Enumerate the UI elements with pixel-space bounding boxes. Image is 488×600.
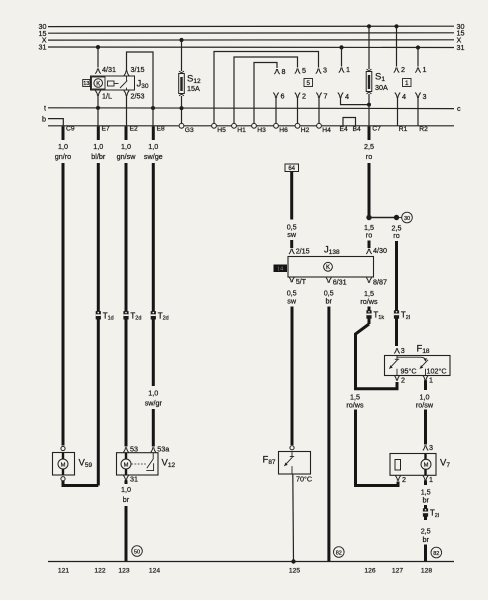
wire pin2 to rail H2 [297, 98, 299, 126]
svg-text:gn/sw: gn/sw [117, 152, 137, 161]
svg-text:J138: J138 [324, 245, 340, 257]
svg-text:E4: E4 [340, 126, 348, 133]
connector T2d on sw/ge [151, 311, 156, 319]
F18 102C contact [420, 360, 428, 376]
relay contact J30 [120, 76, 127, 90]
wire t-c line [48, 107, 454, 110]
svg-text:1: 1 [346, 65, 350, 74]
connector pin 6 bottom [273, 93, 278, 98]
connector pin 8/87 [366, 278, 371, 283]
svg-text:V7: V7 [440, 458, 450, 470]
svg-text:ro/ws: ro/ws [346, 401, 364, 410]
svg-text:b: b [42, 114, 46, 123]
connector pin 1 F18 [423, 375, 428, 380]
svg-text:ro/ws: ro/ws [360, 297, 378, 306]
svg-text:ro: ro [393, 231, 399, 240]
wire br to ground rail right [424, 545, 427, 562]
svg-text:82: 82 [336, 550, 342, 556]
svg-text:br: br [422, 535, 429, 544]
svg-text:6/31: 6/31 [333, 278, 347, 287]
svg-text:5: 5 [302, 66, 306, 75]
node box 64 [285, 164, 299, 172]
wire J30 1/L to rail E7 [97, 96, 99, 126]
terminal circle F87 top [290, 446, 294, 450]
terminal circle V59 bottom [61, 477, 65, 481]
ground ref 82 left [334, 547, 345, 558]
svg-text:T2l: T2l [401, 311, 410, 321]
svg-text:2,5: 2,5 [364, 142, 374, 151]
connector pin 3 bottom right [415, 93, 420, 98]
relay coil J30 [108, 81, 115, 86]
junction dot t-line x181.5 [180, 106, 184, 110]
wire sw from 64 to J138 2/15 [290, 172, 293, 220]
svg-text:123: 123 [118, 568, 129, 575]
svg-text:ro/sw: ro/sw [416, 401, 434, 410]
svg-text:sw: sw [287, 230, 297, 239]
ground ref 82 right [431, 547, 442, 558]
terminal H4 [317, 123, 322, 128]
svg-text:R1: R1 [399, 126, 408, 133]
series resistor in V7 [395, 460, 401, 471]
continuation ref circle 30 [402, 212, 413, 223]
svg-text:R2: R2 [419, 126, 428, 133]
svg-text:3: 3 [323, 66, 327, 75]
svg-text:31: 31 [130, 475, 138, 484]
connector pin 3 V7 [423, 445, 428, 450]
bus X [48, 39, 454, 41]
svg-text:64: 64 [288, 166, 295, 172]
svg-text:E8: E8 [157, 126, 165, 133]
svg-text:H5: H5 [217, 127, 226, 134]
svg-text:1: 1 [405, 80, 409, 87]
fan motor V7 box [390, 454, 436, 476]
svg-text:T2l: T2l [430, 509, 439, 519]
svg-text:1,0: 1,0 [121, 485, 131, 494]
svg-text:8/87: 8/87 [373, 278, 387, 287]
wire ro C7 to junction [368, 163, 371, 218]
svg-text:13: 13 [83, 81, 89, 87]
wire busX to S12 [181, 40, 183, 71]
svg-text:T2d: T2d [158, 311, 169, 321]
junction dot bus30 x369 [367, 24, 371, 28]
svg-text:2/53: 2/53 [131, 91, 145, 100]
svg-text:G3: G3 [185, 127, 194, 134]
wire br V12 to ground rail [125, 506, 128, 561]
svg-text:7: 7 [324, 92, 328, 101]
motor V12 symbol M [121, 459, 131, 469]
connector pin 5/T [289, 277, 294, 282]
svg-text:F18: F18 [417, 344, 430, 356]
svg-text:126: 126 [364, 568, 375, 575]
svg-text:H4: H4 [322, 127, 331, 134]
connector pin 1 V7 [423, 476, 428, 481]
wire sw/gr E8 lower run to V12 53a [152, 409, 155, 447]
connector T1k [366, 310, 371, 318]
terminal H2 [295, 123, 300, 128]
svg-text:H3: H3 [257, 127, 266, 134]
wire ro/ws diagonal jog [356, 324, 398, 389]
svg-text:4/31: 4/31 [102, 65, 116, 74]
svg-text:F87: F87 [263, 455, 276, 467]
wire J30 3/15 riser to E8 [127, 52, 154, 126]
wire F87 to ground rail [292, 474, 295, 562]
svg-text:T1d: T1d [103, 311, 114, 321]
thermo switch F87 box [279, 452, 311, 475]
connector id box 5 [304, 79, 313, 87]
svg-text:C9: C9 [66, 126, 75, 133]
svg-text:4: 4 [402, 92, 406, 101]
svg-text:125: 125 [289, 568, 300, 575]
svg-text:M: M [61, 462, 66, 468]
thermo switch F18 box [385, 356, 451, 376]
svg-text:2/15: 2/15 [296, 247, 310, 256]
svg-text:127: 127 [392, 568, 403, 575]
junction dot branch [394, 215, 399, 220]
svg-text:82: 82 [433, 551, 439, 557]
wire E2 stub [125, 126, 128, 140]
bus labels right [457, 22, 465, 52]
terminal H6 [274, 123, 279, 128]
junction dot t-line x98 [96, 106, 100, 110]
junction dot bus31 x98 [96, 45, 100, 49]
wire bus30 to pin 2 [396, 26, 398, 66]
svg-text:M: M [424, 463, 429, 469]
svg-text:1: 1 [429, 375, 433, 384]
wire V12 31 stub [125, 480, 128, 484]
svg-text:122: 122 [94, 568, 105, 575]
connector T2d on gn/sw [123, 311, 128, 319]
svg-text:bl/br: bl/br [91, 152, 106, 161]
svg-text:1: 1 [423, 65, 427, 74]
wire bus31 to pin 1 left [341, 47, 343, 66]
junction dot t-line x153 [151, 106, 155, 110]
connector pin 2 bottom [295, 93, 300, 98]
connector pin 2/15 [289, 249, 294, 254]
wire sw/ge E8 upper run [152, 163, 155, 386]
motor V7 symbol M [421, 459, 431, 469]
wire sw stub to 2/15 [290, 240, 293, 248]
svg-text:E2: E2 [130, 126, 138, 133]
junction dot pin4/S1 [367, 103, 371, 107]
junction dot F87 ground [291, 559, 295, 563]
svg-text:E7: E7 [102, 126, 110, 133]
svg-text:S1: S1 [375, 72, 385, 84]
svg-text:30A: 30A [375, 83, 388, 92]
jumper loop E4 to B4 [343, 118, 356, 126]
connector pin 2 (right) [394, 68, 399, 73]
wire pin6 to rail H6 [275, 98, 277, 126]
junction dot bus31 x341.5 [339, 45, 343, 49]
fuse S1 30A [366, 69, 372, 94]
connector T1d [96, 311, 101, 319]
svg-text:C7: C7 [372, 126, 381, 133]
connector id box 1 [403, 79, 412, 87]
wire ro/ws 8/87 to T1k [368, 307, 371, 325]
wire C7 stub [368, 126, 371, 140]
svg-text:ro: ro [366, 152, 372, 161]
svg-text:br: br [422, 496, 429, 505]
wire pin7 to rail H4 [318, 98, 320, 126]
wire ro/ws to V7 2 [356, 410, 399, 486]
wire pin4 to S1 column junction [341, 98, 370, 105]
svg-text:15A: 15A [187, 84, 200, 93]
op coil circle K of J30 [94, 79, 103, 88]
terminal H3 [252, 123, 257, 128]
wire ro stub to 4/30 [368, 241, 371, 249]
svg-text:128: 128 [421, 568, 432, 575]
wire H1 riser to pin 5 [234, 57, 298, 126]
wire S12 to rail G3 [181, 96, 183, 126]
svg-text:3: 3 [423, 92, 427, 101]
connector pin 1 (left) [339, 68, 344, 73]
svg-text:sw/ge: sw/ge [144, 152, 163, 161]
svg-text:B4: B4 [353, 126, 361, 133]
svg-text:4: 4 [345, 92, 349, 101]
svg-text:H2: H2 [301, 127, 310, 134]
limit switch V12 [146, 453, 153, 471]
svg-text:c: c [457, 104, 461, 113]
bus labels left [39, 22, 47, 51]
connector pin 53a [151, 447, 156, 452]
wire J30 2/53 to rail E2 [126, 96, 128, 126]
connector pin 3 F18 [394, 348, 399, 353]
wire ro/sw F18 to V7 [424, 410, 427, 445]
wire bus30 to fuse S1 [368, 26, 370, 69]
connector pin 3 top [316, 69, 321, 74]
wire bus31 to pin 1 right [417, 48, 419, 67]
svg-text:J30: J30 [137, 79, 149, 91]
svg-text:1: 1 [429, 475, 433, 484]
svg-text:8: 8 [282, 67, 286, 76]
connector pin 2 F18 [394, 375, 399, 380]
wire E7 stub [97, 126, 100, 140]
junction dot busX x181.5 [179, 38, 183, 42]
svg-text:31: 31 [39, 43, 47, 52]
svg-text:53: 53 [130, 444, 138, 453]
bus 31 [48, 46, 454, 49]
wire pin3 to rail R2 [417, 98, 419, 126]
connector pin 1/L [95, 91, 100, 96]
connector pin 1 (far right) [415, 68, 420, 73]
svg-text:53a: 53a [157, 444, 169, 453]
F87 contact [284, 452, 294, 475]
bus 30 [48, 25, 454, 27]
svg-text:1,0: 1,0 [58, 142, 68, 151]
wire E8 stub [152, 126, 155, 140]
svg-text:30: 30 [404, 216, 410, 222]
svg-text:1,0: 1,0 [148, 389, 158, 398]
svg-text:br: br [123, 495, 130, 504]
wire gn/sw E2 to V12 53 [125, 163, 128, 447]
junction dot bus31 x418 [416, 45, 420, 49]
ground ref 50 [132, 546, 143, 557]
connector T2l lower [423, 508, 428, 516]
relay J30 box [91, 76, 135, 90]
svg-text:121: 121 [58, 568, 69, 575]
svg-text:124: 124 [149, 568, 160, 575]
wire H5 riser to pin 3 [214, 52, 319, 126]
svg-text:50: 50 [134, 549, 140, 555]
svg-text:V12: V12 [162, 458, 176, 470]
wire sw J138 to F87 [291, 307, 294, 446]
svg-text:1,0: 1,0 [148, 142, 158, 151]
connector pin 3/15 [124, 71, 129, 76]
connector pin 4 bottom [338, 93, 343, 98]
circle K of J138 [324, 262, 333, 271]
connector pin 4/30 [366, 249, 371, 254]
wire C9 stub [62, 126, 65, 140]
motor V59 symbol M [58, 459, 68, 469]
wire bl/br E7 to V59 return [97, 163, 100, 486]
svg-text:1,0: 1,0 [93, 142, 103, 151]
svg-text:gn/ro: gn/ro [55, 152, 71, 161]
svg-text:6: 6 [281, 92, 285, 101]
connector pin 2/53 [124, 91, 129, 96]
svg-text:3/15: 3/15 [131, 65, 145, 74]
svg-text:1/L: 1/L [102, 91, 112, 100]
position tag 14 [274, 265, 288, 273]
svg-text:K: K [326, 265, 330, 271]
terminal H1 [232, 123, 237, 128]
wire H3 riser to pin 8 [254, 63, 277, 126]
svg-text:T1k: T1k [373, 311, 384, 321]
svg-text:t: t [44, 104, 46, 113]
reference line to 30 [397, 217, 402, 219]
F18 internal link [397, 357, 426, 361]
connector pin 6/31 [326, 278, 331, 283]
terminal H5 [212, 123, 217, 128]
svg-text:T2d: T2d [130, 311, 141, 321]
wire bus31 to J30 4/31 [97, 47, 99, 67]
wire b to C9 [48, 119, 63, 126]
svg-text:14: 14 [277, 266, 283, 272]
svg-text:1,0: 1,0 [121, 142, 131, 151]
svg-text:sw: sw [287, 297, 297, 306]
relay position tag 13 [83, 80, 90, 87]
junction dot bus30 x396.5 [394, 24, 398, 28]
wire br J138 to ground [327, 307, 330, 562]
svg-text:3: 3 [401, 346, 405, 355]
svg-text:2: 2 [401, 375, 405, 384]
svg-text:H1: H1 [237, 127, 246, 134]
svg-text:br: br [325, 297, 332, 306]
terminal G3 [179, 123, 184, 128]
svg-text:sw/gr: sw/gr [145, 399, 163, 408]
wire branch to 2,5 ro [369, 217, 397, 219]
svg-text:M: M [124, 462, 129, 468]
svg-text:V59: V59 [79, 458, 93, 470]
svg-text:5/T: 5/T [296, 277, 307, 286]
terminal circle V59 top [61, 446, 65, 450]
wire ground rail [48, 561, 454, 563]
wire terminal rail [48, 125, 454, 127]
svg-text:3: 3 [429, 443, 433, 452]
svg-text:2: 2 [302, 92, 306, 101]
wire V7 1 stub [424, 481, 427, 486]
svg-text:2: 2 [402, 475, 406, 484]
bus 15 [48, 32, 454, 34]
connector pin 2 V7 [395, 476, 400, 481]
connector pin 4/31 [95, 69, 100, 74]
fuse S12 15A [179, 71, 185, 96]
motor V59 box [53, 453, 75, 476]
wire br V7 to T2l [424, 505, 427, 520]
svg-text:5: 5 [307, 80, 311, 87]
connector pin 4 bottom right [395, 93, 400, 98]
junction dot ro [366, 215, 371, 220]
connector pin 7 bottom [316, 93, 321, 98]
motor V12 box [117, 453, 159, 475]
control unit J138 box [288, 257, 374, 278]
wire pin4 to rail R1 [397, 98, 399, 126]
connector T2l upper [394, 310, 399, 318]
wire ro to F18 [395, 241, 398, 346]
wire gn/ro C9 to V59 [62, 163, 65, 446]
wire V59 bottom loop to E7 column [63, 481, 98, 486]
svg-text:K: K [96, 81, 100, 87]
connector pin 8 top [274, 69, 279, 74]
svg-text:ro: ro [366, 231, 372, 240]
svg-text:2: 2 [401, 65, 405, 74]
connector pin 53 [123, 447, 128, 452]
svg-text:102°C: 102°C [427, 367, 447, 376]
connector pin 31 [123, 475, 128, 480]
F18 95C contact [389, 356, 399, 376]
wire F18 1 stub [424, 380, 427, 390]
svg-text:4/30: 4/30 [373, 246, 387, 255]
track numbers [58, 568, 432, 575]
svg-text:31: 31 [457, 43, 465, 52]
connector pin 5 top [295, 69, 300, 74]
wire S1 to rail C7 [368, 94, 370, 126]
svg-text:H6: H6 [279, 127, 288, 134]
svg-text:70°C: 70°C [296, 475, 312, 484]
svg-text:95°C: 95°C [401, 367, 417, 376]
